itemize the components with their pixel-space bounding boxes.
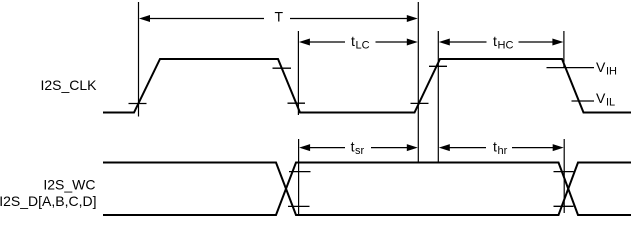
- svg-text:t: t: [351, 33, 355, 49]
- extension line data transition 1: [298, 139, 300, 214]
- svg-text:IH: IH: [606, 66, 617, 78]
- dimension tLC line: [304, 41, 414, 43]
- svg-text:sr: sr: [355, 145, 365, 157]
- dimension tHC arrowheads: [439, 39, 450, 46]
- svg-text:I2S_D[A,B,C,D]: I2S_D[A,B,C,D]: [0, 193, 97, 209]
- extension line rising edge 2 VIL: [417, 2, 419, 162]
- dimension tsr arrowheads: [299, 144, 310, 151]
- extension line falling edge 1 top: [297, 31, 299, 115]
- dimension T arrowheads: [139, 15, 150, 22]
- extension line rising edge 1: [138, 2, 140, 117]
- tick data crossover 2 lower: [554, 205, 574, 207]
- svg-text:hr: hr: [498, 145, 508, 157]
- svg-text:LC: LC: [356, 40, 370, 52]
- data waveform upper trace: [103, 163, 631, 216]
- tick data crossover 1 lower: [288, 205, 310, 207]
- tick VIL rising edge 2: [411, 102, 429, 104]
- svg-text:HC: HC: [498, 40, 514, 52]
- svg-text:V: V: [596, 59, 606, 75]
- tick data crossover 1 upper: [289, 171, 311, 173]
- tick VIH falling edge 1: [273, 67, 292, 69]
- extension line rising edge 2 VIH: [437, 31, 439, 162]
- dimension T line: [143, 18, 414, 20]
- svg-text:t: t: [351, 138, 355, 154]
- dimension thr line: [444, 147, 560, 149]
- tick VIL rising edge 1: [129, 103, 147, 105]
- svg-text:IL: IL: [606, 97, 615, 109]
- svg-text:V: V: [596, 90, 606, 106]
- dimension tHC line: [444, 41, 560, 43]
- dimension tLC arrowheads: [299, 39, 310, 46]
- tick VIH rising edge 2: [429, 65, 447, 67]
- extension line data transition 2: [563, 139, 565, 213]
- extension line falling edge 2 VIH: [563, 31, 565, 68]
- VIH reference line: [547, 67, 595, 69]
- svg-text:I2S_WC: I2S_WC: [43, 176, 95, 192]
- svg-text:I2S_CLK: I2S_CLK: [40, 77, 97, 93]
- tick data crossover 2 upper: [554, 171, 574, 173]
- svg-text:T: T: [275, 9, 284, 25]
- data waveform lower trace: [103, 163, 631, 216]
- svg-text:t: t: [493, 33, 497, 49]
- VIL reference line: [572, 100, 595, 102]
- dimension thr arrowheads: [439, 144, 450, 151]
- I2S_CLK waveform: [103, 59, 631, 113]
- dimension tsr line: [304, 147, 414, 149]
- svg-text:t: t: [493, 138, 497, 154]
- tick VIL falling edge 1: [288, 102, 306, 104]
